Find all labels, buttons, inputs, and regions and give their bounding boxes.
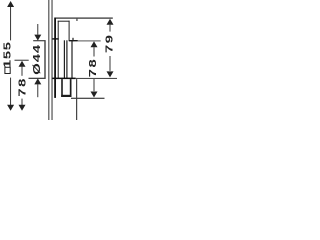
node wall-line-2 <box>52 0 53 120</box>
node handle-front-edge <box>44 40 45 79</box>
svg-text:79: 79 <box>102 34 114 53</box>
node body-inner-left <box>58 21 59 78</box>
node outlet-left-wall <box>61 79 63 97</box>
wire ext-lowest <box>71 98 105 99</box>
node body-bottom-edge <box>53 78 76 80</box>
node outlet-pipe-line <box>76 79 77 120</box>
wire ext-40 <box>78 40 101 41</box>
node body-outer-right-stub <box>76 19 77 21</box>
node outlet-bottom <box>61 95 71 97</box>
svg-text:78: 78 <box>16 77 28 96</box>
node body-step-edge <box>69 40 78 41</box>
svg-text:Ø44: Ø44 <box>30 44 42 75</box>
svg-text:155: 155 <box>1 41 13 68</box>
node body-inner-top <box>58 21 70 22</box>
node body-step-corner <box>72 38 73 42</box>
node flange-bar <box>53 38 59 39</box>
node cartridge-line-2 <box>66 40 67 78</box>
wire <box>0 0 120 120</box>
node dim-78-left-line <box>15 60 29 61</box>
node body-inner-right-upper <box>69 21 70 41</box>
node body-inner-right-lower <box>71 41 72 79</box>
node dim-79-line <box>107 19 114 25</box>
wire handle-top-ext <box>33 40 45 41</box>
node body-left-thick <box>54 18 56 98</box>
node wall-line-1 <box>48 0 49 120</box>
node dim-155-line <box>9 6 12 41</box>
svg-text:78: 78 <box>86 58 98 77</box>
wire ext-78-79-bottom <box>76 78 117 79</box>
node dim-44-line <box>36 24 39 35</box>
node cartridge-line-1 <box>64 40 65 78</box>
node dim-78-right-line <box>91 41 98 47</box>
wire handle-bottom-ext <box>29 78 46 79</box>
node dim-155-label <box>5 67 10 73</box>
node body-top-edge <box>55 18 113 19</box>
node outlet-right-wall <box>70 79 72 97</box>
